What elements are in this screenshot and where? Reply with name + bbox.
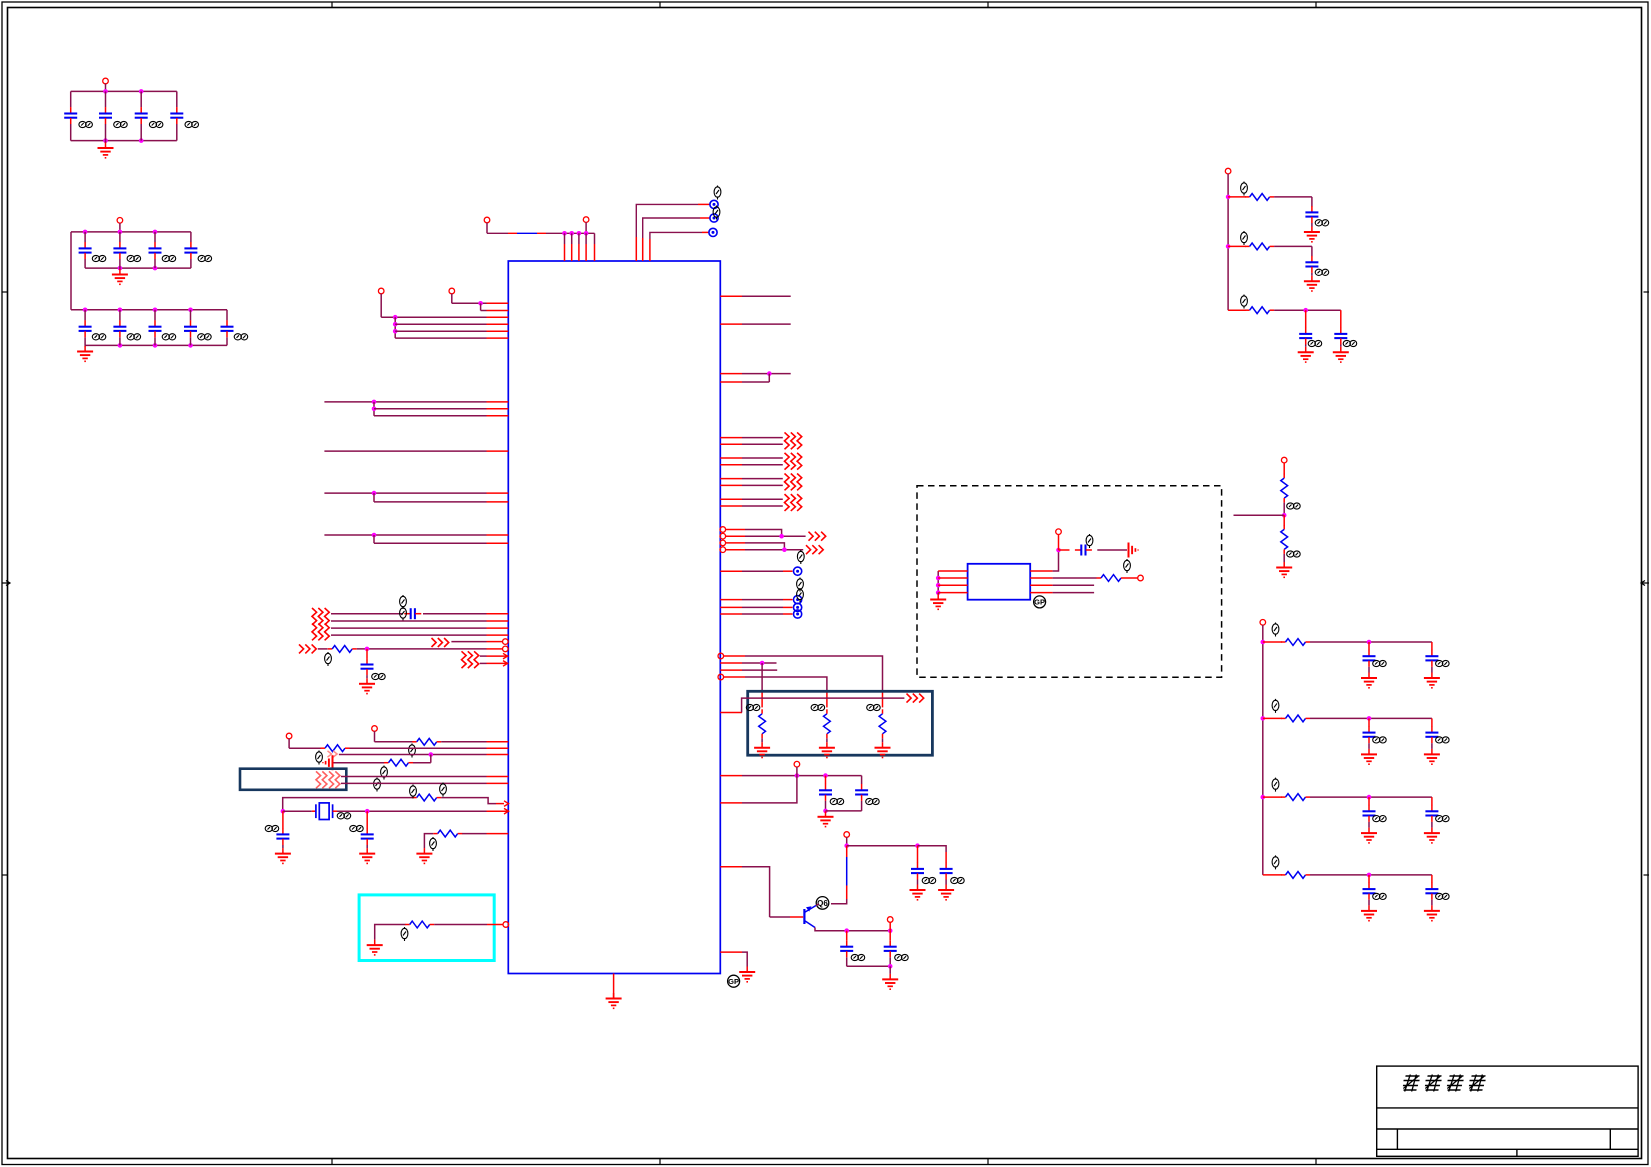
junction [1367,716,1372,721]
wire [847,845,918,847]
off-page connector [907,694,924,703]
label net [714,186,721,200]
ground [930,594,946,609]
resistor R8 [759,709,766,738]
pin stub [496,803,504,805]
label C9 [92,334,106,340]
resistor R6 [433,830,462,837]
capacitor C27 [1363,650,1376,667]
pin stub [487,316,509,318]
pin (nc) D [718,653,724,659]
resistor R16 [1281,525,1288,554]
pin P1 [449,288,455,294]
pin stub [564,244,566,261]
resistor R14 [1245,307,1274,314]
pin stub [720,570,742,572]
junction [1303,308,1308,313]
junction [782,547,787,552]
wire [742,776,797,803]
label C [1436,816,1450,822]
capacitor C16 [276,828,289,845]
wire [413,762,431,764]
wire [366,649,368,658]
off-page connector in box [316,771,327,788]
wire [917,880,919,885]
pin stub [487,662,509,664]
wire [341,776,487,778]
GP symbol 1 [728,975,740,987]
capacitor C30 [1425,726,1438,743]
pin stub [720,802,742,804]
wire [1228,309,1246,311]
resistor R3 [321,745,350,752]
label C20 [851,954,864,960]
wire [283,798,413,812]
ground [1424,905,1440,920]
wire [831,899,847,904]
pin stub [487,323,509,325]
wire [331,620,487,622]
junction [365,809,370,814]
wire [1431,875,1433,883]
label R3 [316,751,323,765]
ground (rotated) [1129,543,1139,558]
ground [606,993,622,1008]
label C [1436,893,1450,899]
junction [83,230,88,235]
pin PWR2 [844,832,850,838]
junction [118,308,123,313]
pin (nc) E [718,674,724,680]
capacitor C12 [184,320,197,337]
pin LAD [1260,620,1266,626]
capacitor C25 [1299,328,1312,345]
pin stub [720,478,742,480]
label C [1436,737,1450,743]
junction [1367,640,1372,645]
wire [226,337,228,345]
wire [742,606,783,608]
pin stub [720,323,742,325]
wire top bus [71,309,227,311]
pin stub [720,669,742,671]
pin VCC2 [117,218,123,224]
junction [188,343,193,348]
pin stub [720,775,742,777]
pin stub [720,484,742,486]
wire [1274,245,1312,247]
wire [917,846,919,863]
wire [846,837,848,846]
pin U2b [1138,575,1144,581]
label R6 [430,837,437,851]
wire [373,493,375,502]
pin (nc) [720,540,726,546]
pin stub [723,676,745,678]
capacitor C30 [911,863,924,880]
pin stub [649,239,651,261]
pin (nc) [720,547,726,553]
label C15 [372,673,386,679]
highlight box (navy) termination resistors [748,691,933,755]
wire [1431,797,1433,805]
wire [742,867,770,917]
pin stub [487,310,509,312]
wire [334,762,385,764]
wire [585,222,587,233]
wire [700,217,710,219]
wire [375,925,406,940]
resistor R13 [1245,243,1274,250]
pin stub [487,534,509,536]
wire [702,231,709,233]
wire [745,656,883,692]
label C8 [198,255,212,261]
wire bottom bus [85,267,191,269]
wire [84,337,86,345]
label C10 [127,334,141,340]
wire [105,124,107,141]
resistor R1 [328,646,357,653]
off-page connector group B [312,624,329,641]
label C17 [350,825,364,831]
label R19 [1272,778,1279,792]
wire [374,542,487,544]
resistor R15 [1281,474,1288,503]
off-page connector [806,545,823,554]
label C6 [127,255,141,261]
pin stub [720,381,742,383]
wire [918,846,947,852]
pin stub U2 [1030,577,1052,579]
wire [1228,196,1246,198]
label C31 [951,877,964,883]
ground [359,678,375,693]
wire [154,232,156,242]
label net [440,783,447,797]
wire bottom bus [85,344,227,346]
wire [282,811,284,828]
wire [742,373,791,375]
wire [889,931,891,941]
wire [105,84,107,92]
off-page connector pair [785,474,802,491]
junction [1261,795,1266,800]
wire net with colored segment [487,232,595,234]
wire [882,738,884,742]
pin stub [720,599,742,601]
wire [826,738,828,742]
pin stub [720,951,742,953]
wire [70,91,72,107]
wire [742,669,777,671]
capacitor C31 [1363,805,1376,822]
wire [796,767,798,776]
wire [374,731,376,742]
pin VCC1 [103,78,109,84]
wire [84,232,86,242]
wire [783,613,793,615]
wire [790,916,803,918]
ground (rotated) [323,755,333,770]
pin stub [720,437,742,439]
no-connect 1 [710,200,718,208]
label C14a [400,595,407,609]
junction [393,329,398,334]
wire [742,599,783,601]
pin stub [487,782,509,784]
junction [478,301,483,306]
capacitor C3 [135,107,148,124]
pin stub [720,505,742,507]
capacitor C23 [1305,206,1318,223]
ground [819,742,835,757]
wire [288,739,290,749]
wire [1053,584,1095,586]
pin stub [487,833,509,835]
label R17 [1272,623,1279,637]
pin stub [720,866,742,868]
junction [1056,548,1061,553]
ground [818,811,834,826]
border zone tick [659,2,661,8]
ground [1304,227,1320,242]
junction [1367,873,1372,878]
pin stub [720,464,742,466]
wire [1053,592,1095,594]
junction [153,266,158,271]
junction [372,533,377,538]
pin VDD [484,217,490,223]
pin stub [487,408,509,410]
junction [153,343,158,348]
wire [441,798,496,804]
wire [451,641,486,643]
pin stub [487,415,509,417]
wire [742,323,791,325]
label C30 [922,877,935,883]
border zone tick [659,1159,661,1165]
off-page connector group A [312,608,329,625]
ground [359,848,375,863]
wire [1263,717,1282,719]
label C25 [1308,340,1322,346]
wire [742,464,783,466]
off-page connector [432,638,449,647]
junction [281,809,286,814]
wire [434,924,487,926]
wire [333,810,337,812]
wire [324,450,486,452]
wire [889,966,891,974]
resistor R7 [405,921,434,928]
junction [823,809,828,814]
capacitor C9 [79,320,92,337]
wire [1431,900,1433,906]
svg-text:Q6: Q6 [817,899,828,908]
resistor R4 [384,759,413,766]
label C7 [162,255,176,261]
wire [826,810,862,812]
pin stub U2 [938,570,967,572]
border zone tick [987,2,989,8]
pin stub [487,747,509,749]
ground [98,143,114,158]
pin stub [725,549,745,551]
wire [1368,642,1370,650]
capacitor C10 [113,320,126,337]
wire [742,295,791,297]
pin stub [487,542,509,544]
wire [1368,822,1370,828]
wire [945,852,947,863]
pin stub [720,613,742,615]
label C11 [162,334,176,340]
pin PWR1 [794,761,800,767]
pin stub [594,233,596,244]
capacitor C34 [1425,883,1438,900]
ground [1361,749,1377,764]
wire [190,232,192,242]
wire [1340,345,1342,347]
pin stub [487,648,503,650]
wire [1263,796,1282,798]
wire [742,505,783,507]
wire [1305,310,1307,328]
wire bus [1262,642,1264,875]
capacitor C24 [1305,256,1318,273]
off-page connector pair [785,453,802,470]
wire [84,345,86,346]
wire [783,606,793,608]
capacitor C8 [184,242,197,259]
wire [861,801,863,811]
wire [1283,515,1285,526]
pin stub [487,655,509,657]
junction [844,928,849,933]
pin stub [720,443,742,445]
pin stub [487,302,509,304]
label R7 [401,927,408,941]
ground [1424,673,1440,688]
pin (nc) [720,533,726,539]
wire [768,374,770,382]
wire [1310,717,1432,719]
wire [350,747,487,749]
label R10 [867,704,880,710]
pin stub [720,457,742,459]
junction [393,315,398,320]
capacitor C18 [819,784,832,801]
junction [577,231,582,236]
wire [1053,550,1059,571]
wire [761,663,763,692]
wire [1234,514,1285,516]
ground [77,346,93,361]
border zone tick [987,1159,989,1165]
junction [1367,795,1372,800]
ground [275,848,291,863]
resistor R11 [1097,575,1126,582]
pin stub [578,244,580,261]
capacitor C6 [113,242,126,259]
wire [331,627,487,629]
pin stub [725,529,745,531]
label C22 [1086,534,1093,548]
capacitor C33 [1363,883,1376,900]
ground [1424,828,1440,843]
off-page connector in box [329,771,340,788]
wire [742,381,769,383]
ground [1361,905,1377,920]
ground [1276,562,1292,577]
junction [767,371,772,376]
capacitor C19 [855,784,868,801]
wire [289,747,321,749]
junction [118,343,123,348]
junction [888,964,893,969]
wire [373,402,375,416]
wire left bus [937,571,939,593]
wire [318,648,328,650]
wire [462,833,487,835]
pin stub [594,244,596,261]
wire [374,408,487,410]
junction [153,308,158,313]
pin stub [720,662,742,664]
wire [105,91,107,107]
wire top bus [71,90,177,92]
label R12 [1241,182,1248,196]
wire [84,259,86,268]
capacitor C29 [1363,726,1376,743]
pin stub [487,754,509,756]
junction [936,583,941,588]
wire [374,501,487,503]
wire [742,457,783,459]
ground [739,967,755,982]
wire [742,478,783,480]
junction [83,308,88,313]
wire [1310,874,1432,876]
resistor R18 [1281,715,1310,722]
pin stub [585,244,587,261]
wire [1058,534,1060,550]
ground [1424,749,1440,764]
pin stub [487,641,503,643]
junction [915,843,920,848]
label R16 [1287,551,1301,557]
capacitor C1 [64,107,77,124]
wire [341,782,487,784]
company name text [1401,1075,1487,1092]
wire [1368,797,1370,805]
wire [190,259,192,268]
pin stub [487,450,509,452]
wire [1311,223,1313,227]
capacitor C14 (series) [404,608,421,619]
resistor R2 [412,738,441,745]
resistor R19 [1281,794,1310,801]
label C1 [79,121,93,127]
highlight box (cyan) [359,895,494,961]
pin P2 [378,288,384,294]
wire [742,698,905,712]
pin stub [578,233,580,244]
wire [430,755,432,763]
wire [742,662,777,664]
label R15 [1287,503,1301,509]
